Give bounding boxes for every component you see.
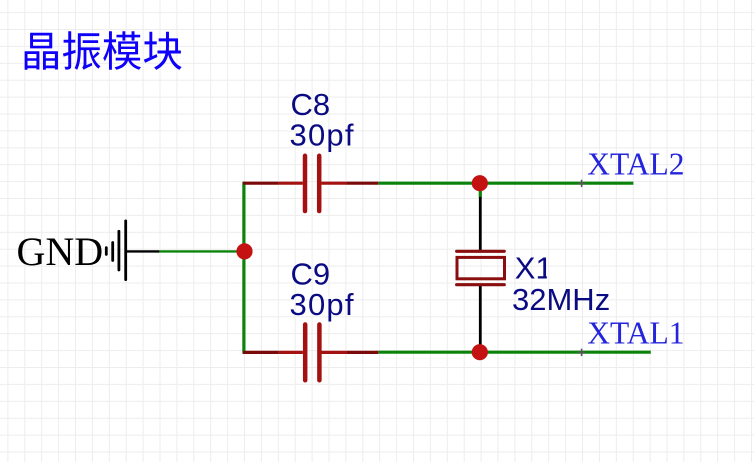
svg-text:30pf: 30pf — [290, 117, 354, 152]
svg-text:XTAL1: XTAL1 — [587, 316, 684, 351]
svg-text:XTAL2: XTAL2 — [587, 146, 684, 181]
svg-text:X1: X1 — [515, 251, 553, 286]
svg-text:30pf: 30pf — [290, 287, 354, 322]
svg-text:32MHz: 32MHz — [512, 282, 610, 317]
svg-text:GND: GND — [17, 229, 104, 274]
